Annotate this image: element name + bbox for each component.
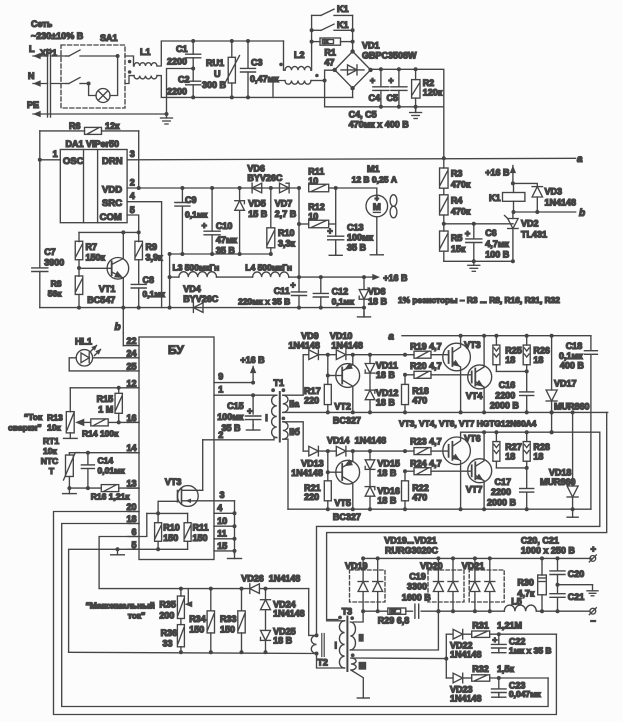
svg-text:200: 200 xyxy=(159,610,174,620)
svg-text:DRN: DRN xyxy=(102,156,123,167)
svg-text:14: 14 xyxy=(126,443,136,453)
wire HL1 to pins 24 25 xyxy=(93,357,128,359)
svg-text:2: 2 xyxy=(218,430,223,440)
svg-text:0,1мк: 0,1мк xyxy=(185,210,208,220)
svg-text:15: 15 xyxy=(217,541,227,551)
svg-text:18: 18 xyxy=(533,452,543,462)
svg-text:+: + xyxy=(388,76,393,86)
T3 III to ground xyxy=(351,670,363,698)
svg-text:C3: C3 xyxy=(251,58,263,68)
svg-text:1600 В: 1600 В xyxy=(402,593,432,603)
svg-text:2200: 2200 xyxy=(495,390,515,400)
svg-text:U: U xyxy=(214,69,221,79)
svg-text:C16: C16 xyxy=(499,380,516,390)
svg-text:R17: R17 xyxy=(304,386,321,396)
ground under R2 xyxy=(415,107,417,112)
svg-text:470: 470 xyxy=(412,396,427,406)
svg-text:11: 11 xyxy=(217,529,227,539)
svg-text:+: + xyxy=(290,280,295,290)
wire DC minus loop xyxy=(325,70,444,107)
svg-text:2: 2 xyxy=(130,178,135,188)
bottom rail of DA1 cell xyxy=(40,307,364,309)
svg-text:C14: C14 xyxy=(98,456,114,466)
svg-text:VD19...VD21: VD19...VD21 xyxy=(384,536,437,546)
resistor R1 47 with IX box xyxy=(320,38,341,45)
lamp in SA1 xyxy=(89,84,96,96)
svg-text:220: 220 xyxy=(304,492,319,502)
output minus mid rail xyxy=(363,610,388,612)
svg-text:+16 В: +16 В xyxy=(240,355,265,365)
svg-text:C20, C21: C20, C21 xyxy=(521,536,559,546)
svg-text:1N4148: 1N4148 xyxy=(450,650,482,660)
svg-text:SA1: SA1 xyxy=(100,33,118,43)
svg-text:VD14: VD14 xyxy=(327,435,350,445)
ground between C20 C21 xyxy=(558,584,593,586)
svg-text:1мк x 35 В: 1мк x 35 В xyxy=(509,646,552,656)
svg-text:VD18: VD18 xyxy=(549,468,572,478)
svg-text:R5: R5 xyxy=(451,233,463,243)
svg-text:10: 10 xyxy=(217,516,227,526)
svg-text:0,01мк: 0,01мк xyxy=(98,465,126,475)
svg-text:400 В: 400 В xyxy=(560,361,585,371)
svg-text:2200: 2200 xyxy=(491,487,511,497)
switch SA1 box xyxy=(61,45,125,108)
wire pin 12 line xyxy=(70,387,128,389)
svg-text:18: 18 xyxy=(505,355,515,365)
svg-text:R34: R34 xyxy=(189,614,206,624)
svg-text:150: 150 xyxy=(189,625,204,635)
wire T3 II bottom to mid rail xyxy=(350,611,438,650)
svg-text:0,1мк: 0,1мк xyxy=(332,297,355,307)
svg-text:1N4148: 1N4148 xyxy=(291,468,323,478)
svg-text:b: b xyxy=(115,322,121,333)
svg-text:RT1: RT1 xyxy=(43,436,59,446)
svg-text:IIб: IIб xyxy=(289,427,300,437)
svg-text:R27: R27 xyxy=(505,442,522,452)
svg-text:VD16: VD16 xyxy=(377,486,400,496)
svg-text:2000 В: 2000 В xyxy=(490,401,520,411)
svg-text:VDD: VDD xyxy=(102,184,122,195)
svg-text:T2: T2 xyxy=(317,657,328,667)
svg-text:VT2: VT2 xyxy=(334,402,351,412)
svg-text:VT1: VT1 xyxy=(99,284,116,294)
svg-text:18: 18 xyxy=(505,452,515,462)
svg-text:R23 4,7: R23 4,7 xyxy=(410,436,442,446)
svg-text:R32: R32 xyxy=(472,664,489,674)
wire R6 left vertical xyxy=(39,131,41,160)
svg-text:1N4148: 1N4148 xyxy=(450,693,482,703)
svg-text:16: 16 xyxy=(126,413,136,423)
svg-text:C9: C9 xyxy=(185,195,197,205)
svg-text:R2: R2 xyxy=(423,78,435,88)
svg-text:R14 100к: R14 100к xyxy=(82,428,119,438)
svg-text:VD5: VD5 xyxy=(248,199,266,209)
svg-text:R20 4,7: R20 4,7 xyxy=(410,361,442,371)
svg-text:R19 4,7: R19 4,7 xyxy=(410,341,442,351)
svg-text:3300: 3300 xyxy=(407,582,427,592)
svg-text:DA1 VIPer50: DA1 VIPer50 xyxy=(66,139,120,149)
svg-text:R8: R8 xyxy=(51,279,62,289)
svg-text:C11: C11 xyxy=(274,286,290,296)
T1 winding IIb xyxy=(283,422,288,439)
wire pin 6 to max current line xyxy=(99,537,249,589)
svg-text:220мк x 35 В: 220мк x 35 В xyxy=(238,297,290,307)
svg-text:NTC: NTC xyxy=(41,456,58,466)
svg-text:R12: R12 xyxy=(308,202,325,212)
svg-text:TL431: TL431 xyxy=(521,230,547,240)
svg-text:VD2: VD2 xyxy=(521,219,539,229)
svg-text:VD3: VD3 xyxy=(545,187,563,197)
svg-text:18: 18 xyxy=(126,514,136,524)
wire pin 18 loop xyxy=(62,524,548,707)
svg-text:VD26: VD26 xyxy=(241,574,264,584)
svg-text:470мк x 400 В: 470мк x 400 В xyxy=(349,120,410,130)
svg-text:4,7мк: 4,7мк xyxy=(485,239,509,249)
ground under VD18 xyxy=(572,509,574,517)
ground on pin 5 line xyxy=(117,549,119,555)
svg-text:18 В: 18 В xyxy=(376,398,396,408)
wire pin 5 loop xyxy=(69,549,139,652)
svg-text:“Максимальный: “Максимальный xyxy=(86,600,155,610)
svg-text:R3: R3 xyxy=(451,169,463,179)
svg-text:18 В: 18 В xyxy=(273,635,293,645)
svg-text:1N4148: 1N4148 xyxy=(269,574,301,584)
svg-text:300 В: 300 В xyxy=(202,80,227,90)
T2 bottom to T3 primary bottom xyxy=(317,654,345,669)
svg-text:III: III xyxy=(359,661,367,671)
svg-text:COM: COM xyxy=(100,212,122,223)
svg-text:33: 33 xyxy=(163,638,173,648)
svg-text:1N4148: 1N4148 xyxy=(545,198,577,208)
output plus rail xyxy=(364,557,591,559)
svg-text:470к: 470к xyxy=(451,180,471,190)
svg-text:+16 В: +16 В xyxy=(485,168,510,178)
wire COM node rail xyxy=(79,231,139,233)
svg-text:T1: T1 xyxy=(274,378,285,388)
svg-text:SRC: SRC xyxy=(102,198,122,209)
stage2 collector mid bus xyxy=(461,431,600,433)
svg-text:R11: R11 xyxy=(308,167,324,177)
svg-text:0,047мк: 0,047мк xyxy=(509,689,542,699)
svg-text:2200: 2200 xyxy=(167,57,187,67)
svg-text:VD11: VD11 xyxy=(376,360,398,370)
svg-text:Сеть: Сеть xyxy=(31,19,53,29)
svg-text:R25: R25 xyxy=(505,345,522,355)
VT3 drain wire to pin 2 xyxy=(202,440,204,491)
wire N to SA1 xyxy=(51,83,67,85)
svg-text:1N4148: 1N4148 xyxy=(273,608,305,618)
wire L3 junction down xyxy=(169,277,171,308)
svg-text:18 В: 18 В xyxy=(368,297,388,307)
T1 primary winding I xyxy=(272,395,277,437)
svg-text:L: L xyxy=(29,44,35,54)
svg-text:C20: C20 xyxy=(568,569,585,579)
wire VDD junction vertical xyxy=(298,188,300,292)
ground under C6 xyxy=(473,261,475,265)
svg-text:L4 500мкГн: L4 500мкГн xyxy=(245,263,292,273)
svg-text:10к: 10к xyxy=(47,423,61,433)
wire pin 20 loop xyxy=(54,512,557,715)
wire T3 II top to rectifier xyxy=(353,611,363,622)
svg-text:18 В: 18 В xyxy=(376,370,396,380)
svg-text:0,47мк: 0,47мк xyxy=(250,74,279,84)
svg-text:1N4148: 1N4148 xyxy=(355,435,387,445)
svg-text:35 В: 35 В xyxy=(347,243,367,253)
svg-text:C19: C19 xyxy=(409,571,426,581)
svg-text:22: 22 xyxy=(126,336,136,346)
svg-text:R36: R36 xyxy=(161,628,178,638)
svg-text:VT5: VT5 xyxy=(334,498,351,508)
svg-text:K1: K1 xyxy=(337,20,349,30)
svg-text:IX: IX xyxy=(324,39,330,45)
svg-text:C21: C21 xyxy=(568,592,585,602)
wire PE xyxy=(51,113,167,115)
svg-text:C18: C18 xyxy=(566,341,583,351)
svg-text:12 В 0,25 А: 12 В 0,25 А xyxy=(352,175,397,185)
svg-text:18 В: 18 В xyxy=(377,496,397,506)
svg-text:“Ток: “Ток xyxy=(24,412,43,422)
svg-text:R10: R10 xyxy=(163,523,180,533)
svg-text:C1: C1 xyxy=(176,44,188,54)
svg-text:VT3: VT3 xyxy=(165,477,182,487)
svg-text:+: + xyxy=(465,229,470,239)
T1 winding IIa xyxy=(283,395,288,412)
ground under RT1 xyxy=(68,488,70,494)
svg-text:1,21М: 1,21М xyxy=(497,621,522,631)
svg-text:0,1мк: 0,1мк xyxy=(143,289,166,299)
feedback vertical xyxy=(445,634,447,678)
svg-text:2200: 2200 xyxy=(167,87,187,97)
svg-text:R11: R11 xyxy=(193,523,209,533)
svg-text:+: + xyxy=(370,76,375,86)
svg-text:R28: R28 xyxy=(533,442,550,452)
rail under aux xyxy=(170,253,271,255)
svg-text:VD17: VD17 xyxy=(554,379,577,389)
svg-text:+: + xyxy=(247,406,252,416)
svg-text:VD1: VD1 xyxy=(362,41,380,51)
wire L2 top to K1 vertical xyxy=(310,15,313,70)
svg-text:3,3к: 3,3к xyxy=(278,239,296,249)
T3 III tap to feedback xyxy=(351,657,446,660)
svg-text:VT7: VT7 xyxy=(466,485,483,495)
svg-text:5: 5 xyxy=(130,205,135,215)
svg-text:+: + xyxy=(202,221,207,231)
svg-text:BC327: BC327 xyxy=(333,416,361,426)
control unit BU box xyxy=(139,337,214,560)
svg-text:1N4148: 1N4148 xyxy=(331,340,363,350)
svg-text:1000 x 250 В: 1000 x 250 В xyxy=(521,546,576,556)
svg-text:150: 150 xyxy=(193,533,208,543)
svg-text:1: 1 xyxy=(218,384,223,394)
svg-text:MUR860: MUR860 xyxy=(554,402,590,412)
svg-text:L3 500мкГн: L3 500мкГн xyxy=(173,263,220,273)
wire bridge minus down xyxy=(352,88,354,97)
svg-text:b: b xyxy=(579,208,585,219)
svg-text:VD8: VD8 xyxy=(368,287,386,297)
svg-text:I: I xyxy=(335,641,338,651)
svg-text:VD4: VD4 xyxy=(183,284,201,294)
resistor R2 120k xyxy=(415,69,417,79)
svg-text:ток”: ток” xyxy=(128,610,146,620)
svg-text:C4: C4 xyxy=(369,93,381,103)
svg-text:3: 3 xyxy=(130,149,135,159)
svg-text:IV: IV xyxy=(391,609,396,615)
svg-text:120к: 120к xyxy=(423,88,443,98)
svg-text:C6: C6 xyxy=(485,228,497,238)
svg-text:9: 9 xyxy=(218,372,223,382)
svg-text:25: 25 xyxy=(126,361,136,371)
svg-text:5: 5 xyxy=(131,540,136,550)
svg-text:K1: K1 xyxy=(489,193,501,203)
wire b to pin 22 xyxy=(122,333,124,346)
svg-text:150: 150 xyxy=(163,533,178,543)
wire pin 6 inside xyxy=(139,513,147,536)
wire R25 R26 join xyxy=(496,370,526,372)
svg-text:1% резисторы – R3 ... R8, R16,: 1% резисторы – R3 ... R8, R16, R31, R32 xyxy=(398,295,560,305)
svg-text:R26: R26 xyxy=(533,345,550,355)
wire L1 to bottom rail xyxy=(157,76,353,98)
svg-text:R4: R4 xyxy=(451,196,463,206)
svg-text:R13: R13 xyxy=(47,413,63,423)
node b line right xyxy=(513,211,576,213)
svg-text:HL1: HL1 xyxy=(75,337,92,347)
svg-text:R31: R31 xyxy=(472,621,489,631)
wire L1 to top rail xyxy=(157,41,284,66)
svg-text:VD15: VD15 xyxy=(377,459,400,469)
wire pin 5 inside xyxy=(139,548,188,550)
svg-text:БУ: БУ xyxy=(168,343,184,357)
svg-text:18 В: 18 В xyxy=(377,468,397,478)
svg-text:L1: L1 xyxy=(140,47,151,57)
svg-text:T3: T3 xyxy=(342,607,353,617)
svg-text:сварки”: сварки” xyxy=(8,422,42,432)
svg-text:3: 3 xyxy=(220,490,225,500)
svg-text:R15: R15 xyxy=(97,394,114,404)
svg-text:L2: L2 xyxy=(294,50,305,60)
svg-text:12к: 12к xyxy=(105,121,120,131)
ground under R13 xyxy=(69,433,71,439)
svg-text:2,7 В: 2,7 В xyxy=(275,209,297,219)
svg-text:BYV26C: BYV26C xyxy=(183,294,219,304)
wire R4R5 junction to VD2 ref xyxy=(444,223,513,225)
svg-text:VD7: VD7 xyxy=(275,199,293,209)
svg-text:1 М: 1 М xyxy=(98,405,113,415)
svg-text:3900: 3900 xyxy=(44,258,64,268)
svg-text:M: M xyxy=(373,202,381,213)
svg-text:3,9к: 3,9к xyxy=(146,253,164,263)
svg-text:15к: 15к xyxy=(451,244,466,254)
svg-text:VD13: VD13 xyxy=(301,459,324,469)
svg-text:C10: C10 xyxy=(216,221,233,231)
svg-text:24: 24 xyxy=(126,348,136,358)
stage1 emitter bus xyxy=(283,411,608,413)
switch SA1 contact 2 xyxy=(66,83,69,85)
wire L2 bottom to bridge xyxy=(311,80,325,82)
svg-text:4,7к: 4,7к xyxy=(517,589,535,599)
svg-text:18: 18 xyxy=(533,355,543,365)
svg-text:R29 6,8: R29 6,8 xyxy=(378,616,410,626)
svg-text:10к: 10к xyxy=(43,446,57,456)
svg-text:VD10: VD10 xyxy=(330,331,353,341)
svg-text:VT3, VT4, VT6, VT7 HGTG12N60A: VT3, VT4, VT6, VT7 HGTG12N60A4 xyxy=(399,419,537,429)
svg-text:R18: R18 xyxy=(412,386,429,396)
svg-text:1,5к: 1,5к xyxy=(497,664,515,674)
ground PE xyxy=(166,114,168,118)
wire rail to L3 line xyxy=(169,254,171,277)
svg-text:+: + xyxy=(375,196,379,203)
svg-text:C7: C7 xyxy=(44,247,56,257)
svg-text:IIa: IIa xyxy=(289,399,300,409)
svg-text:56к: 56к xyxy=(48,289,62,299)
svg-text:47: 47 xyxy=(324,58,334,68)
svg-text:470к: 470к xyxy=(451,207,471,217)
svg-text:1N4148: 1N4148 xyxy=(288,340,320,350)
svg-text:R1: R1 xyxy=(324,48,336,58)
T3 primary I xyxy=(339,621,344,668)
svg-text:M1: M1 xyxy=(367,164,380,174)
svg-text:47мк: 47мк xyxy=(216,235,238,245)
switch SA1 contact 1 xyxy=(66,55,69,57)
svg-text:–: – xyxy=(591,616,596,627)
svg-text:R16 1,21к: R16 1,21к xyxy=(91,492,130,502)
svg-text:R30: R30 xyxy=(517,578,534,588)
svg-text:220: 220 xyxy=(304,396,319,406)
svg-text:100мк: 100мк xyxy=(347,233,374,243)
+16V arrow right xyxy=(299,276,364,278)
T3 winding III xyxy=(351,658,356,670)
svg-text:C8: C8 xyxy=(143,275,155,285)
svg-text:C12: C12 xyxy=(332,287,349,297)
svg-text:100 В: 100 В xyxy=(485,250,510,260)
wire L to SA1 xyxy=(51,55,67,57)
svg-text:PE: PE xyxy=(27,100,39,110)
svg-text:100мк: 100мк xyxy=(217,412,244,422)
svg-text:RU1: RU1 xyxy=(206,58,224,68)
svg-text:12: 12 xyxy=(126,378,136,388)
svg-text:RURG3020C: RURG3020C xyxy=(385,546,439,556)
svg-text:2000 В: 2000 В xyxy=(487,497,517,507)
svg-text:6: 6 xyxy=(131,527,136,537)
T3 winding II xyxy=(350,622,355,650)
max current line with VD26 xyxy=(250,584,260,594)
svg-text:C15: C15 xyxy=(227,401,244,411)
wire R6 right vertical to VDD xyxy=(138,131,140,188)
stage2 emitter bus xyxy=(288,508,591,510)
svg-text:N: N xyxy=(28,71,35,81)
svg-text:VD6: VD6 xyxy=(247,164,265,174)
fan blades xyxy=(390,195,397,207)
svg-text:a: a xyxy=(577,154,583,165)
svg-text:+: + xyxy=(327,226,332,236)
IIb bottom wire to stage2 bus xyxy=(283,439,288,509)
svg-text:VD12: VD12 xyxy=(376,388,399,398)
svg-text:C13: C13 xyxy=(347,223,364,233)
svg-text:T: T xyxy=(49,466,55,476)
svg-text:a: a xyxy=(388,332,394,343)
svg-text:13: 13 xyxy=(126,479,136,489)
wire DC plus rail xyxy=(371,69,444,158)
svg-text:K1: K1 xyxy=(337,4,349,14)
svg-text:150к: 150к xyxy=(86,253,106,263)
bottom rail of regulator xyxy=(444,260,513,262)
svg-text:R33: R33 xyxy=(220,614,237,624)
svg-text:C2: C2 xyxy=(178,75,190,85)
svg-text:15 В: 15 В xyxy=(248,209,268,219)
ground of BU logic pins xyxy=(234,501,236,554)
svg-text:4: 4 xyxy=(217,503,222,513)
svg-text:R22: R22 xyxy=(412,483,429,493)
svg-text:20: 20 xyxy=(126,502,136,512)
